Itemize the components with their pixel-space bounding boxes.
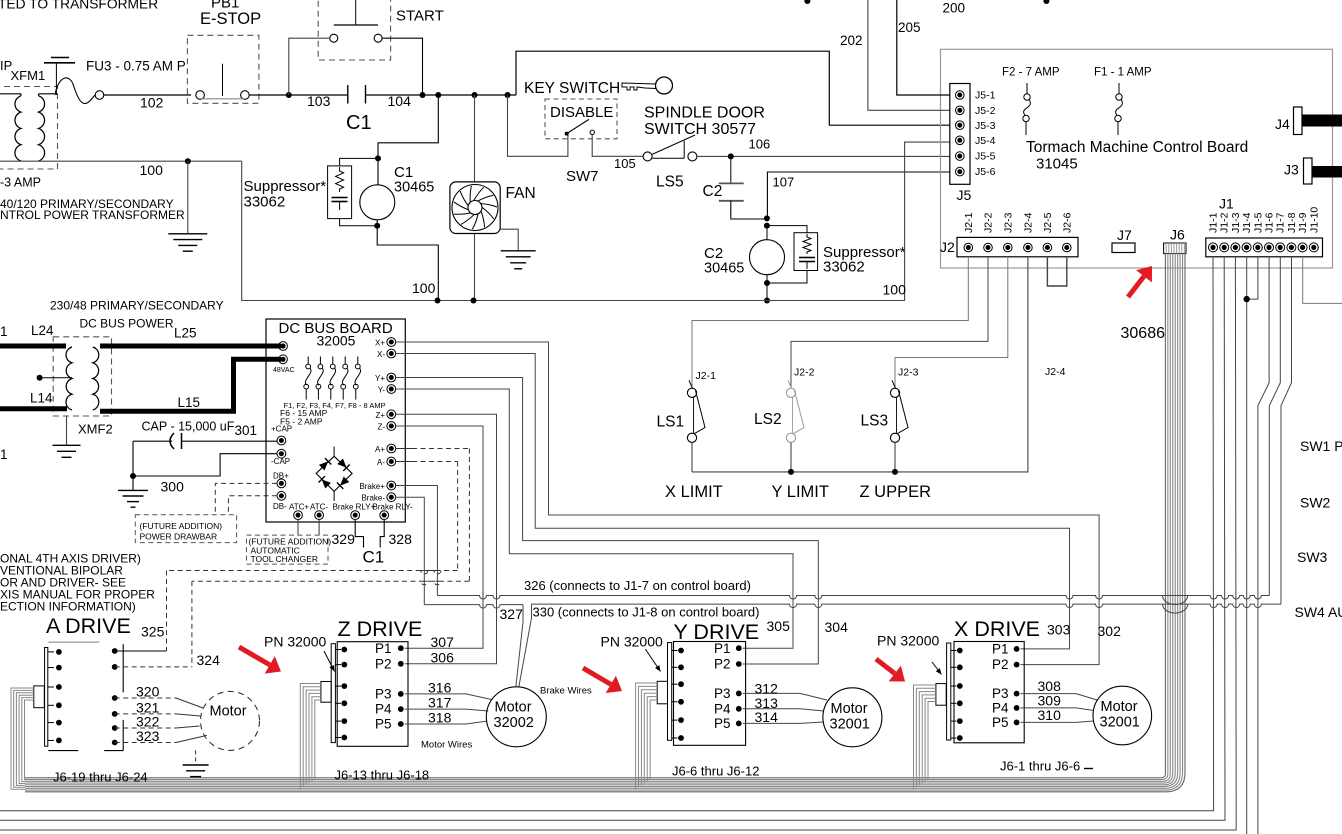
Z drive P pins	[398, 645, 404, 651]
svg-text:J6-13 thru J6-18: J6-13 thru J6-18	[335, 768, 430, 783]
capacitor ground leg	[132, 441, 134, 490]
PB2 START contacts	[330, 34, 338, 42]
suppressor bottom return (C2)	[767, 271, 807, 284]
svg-text:+CAP: +CAP	[271, 425, 292, 434]
svg-text:ECTION INFORMATION): ECTION INFORMATION)	[0, 600, 136, 614]
svg-text:P4: P4	[714, 701, 731, 716]
svg-text:320: 320	[136, 684, 160, 700]
key switch bypass wire rectangle	[516, 51, 950, 125]
wire J1-9 exits right	[1303, 257, 1342, 304]
wire 205	[897, 0, 950, 95]
line 330 branch to Z motor brake	[519, 604, 532, 687]
svg-text:330 (connects to J1-8 on contr: 330 (connects to J1-8 on control board)	[533, 605, 760, 620]
svg-text:A+: A+	[375, 445, 385, 454]
switch SW7 contacts and blade	[565, 132, 569, 136]
fan body	[450, 182, 500, 234]
svg-text:Z UPPER: Z UPPER	[860, 483, 932, 501]
svg-text:103: 103	[307, 93, 331, 109]
svg-text:LS1: LS1	[657, 414, 685, 431]
wire from START left contact to wire 103 node	[289, 38, 330, 95]
A drive motor dashed circle	[201, 691, 260, 750]
suppressor bottom wire (C1)	[340, 219, 378, 226]
wire 202	[868, 0, 950, 110]
connector J5 box	[950, 84, 970, 185]
jumper J1-5 to J1-4	[1247, 257, 1258, 299]
svg-text:J1-5: J1-5	[1252, 212, 1264, 233]
svg-text:230/48 PRIMARY/SECONDARY: 230/48 PRIMARY/SECONDARY	[50, 299, 224, 313]
suppressor wire top (C1)	[340, 158, 378, 166]
svg-text:323: 323	[136, 728, 160, 744]
connector J2 pins and labels	[964, 243, 973, 252]
wire 104	[366, 94, 517, 96]
svg-text:105: 105	[614, 156, 636, 171]
svg-text:DB+: DB+	[273, 472, 289, 481]
svg-text:Brake RLY-: Brake RLY-	[373, 503, 413, 512]
wire X- to X drive 303	[396, 354, 1070, 649]
svg-text:LS2: LS2	[754, 411, 782, 428]
svg-text:J2: J2	[940, 239, 955, 255]
svg-text:J2-6: J2-6	[1061, 212, 1073, 233]
svg-text:FAN: FAN	[506, 185, 536, 202]
svg-text:Motor Wires: Motor Wires	[421, 740, 472, 751]
svg-text:318: 318	[428, 710, 452, 726]
svg-text:DB-: DB-	[273, 502, 287, 511]
svg-text:P5: P5	[714, 716, 731, 731]
svg-text:100: 100	[412, 280, 436, 296]
wire 103	[249, 94, 348, 96]
wire 107 from J5-6	[767, 172, 949, 218]
PB2 START actuator	[334, 24, 378, 26]
terminal Z+	[387, 410, 396, 419]
limit switch LS1	[687, 388, 696, 397]
connector J6	[1164, 243, 1186, 254]
ribbon cable 30686 from J6	[25, 254, 1165, 778]
junction dots at top edge	[804, 0, 810, 4]
connector J1 box	[1206, 238, 1323, 257]
thick bus bar L25	[100, 344, 281, 349]
contactor coil C1 30465 circle	[360, 185, 395, 220]
wire Z- to Z drive 307	[396, 426, 483, 648]
wire 325 stub	[115, 650, 167, 652]
wire Z+ to Z drive 306	[396, 414, 497, 664]
Z motor circle	[486, 687, 546, 747]
A motor ground	[195, 750, 197, 765]
red arrow at Y drive	[583, 668, 611, 684]
svg-text:SW3: SW3	[1297, 549, 1328, 565]
connector J4	[1294, 107, 1303, 135]
svg-text:POWER DRAWBAR: POWER DRAWBAR	[140, 532, 218, 542]
wire J1-1 to bottom bus	[0, 257, 1214, 811]
junction dots at C2 coil top	[764, 215, 770, 221]
wire from START right contact to wire 104 node	[382, 38, 422, 95]
terminal -CAP	[277, 449, 286, 458]
bridge rectifier	[316, 456, 352, 491]
terminal Brake RLY+	[351, 511, 360, 520]
wire ATC- into box	[318, 520, 320, 535]
svg-text:307: 307	[431, 634, 455, 650]
wire J2-1 to LS1	[692, 257, 968, 388]
svg-text:328: 328	[389, 531, 413, 547]
svg-text:30686: 30686	[1121, 325, 1166, 342]
wire J1-7 with jog to line 326	[1269, 257, 1280, 596]
svg-text:L24: L24	[31, 323, 54, 338]
svg-text:X+: X+	[375, 339, 385, 348]
svg-text:J5-3: J5-3	[975, 120, 996, 132]
svg-text:316: 316	[428, 679, 452, 695]
motor wires 320-323 dashed	[115, 697, 176, 699]
LS5 blade triangle	[652, 135, 695, 158]
svg-text:XMF2: XMF2	[78, 422, 113, 437]
svg-text:J2-1: J2-1	[963, 212, 975, 233]
wire Brake RLY- to coil C1	[380, 520, 384, 548]
svg-text:33062: 33062	[244, 194, 286, 211]
key icon	[656, 77, 673, 94]
wires 308 309 310 to X motor	[1021, 693, 1076, 695]
svg-text:E-STOP: E-STOP	[200, 10, 261, 28]
X drive cable block	[936, 684, 946, 706]
svg-text:31045: 31045	[1036, 156, 1078, 173]
terminal Brake+	[387, 481, 396, 490]
svg-text:X LIMIT: X LIMIT	[665, 483, 723, 501]
wire -CAP to ground node 300	[133, 454, 277, 476]
svg-text:Tormach Machine Control Board: Tormach Machine Control Board	[1026, 139, 1248, 156]
svg-text:310: 310	[1038, 707, 1062, 723]
limit switch LS2	[786, 388, 795, 397]
connector J3	[1304, 158, 1313, 184]
svg-text:301: 301	[235, 423, 258, 438]
svg-text:SW4 AUX: SW4 AUX	[1295, 604, 1342, 620]
suppressor capacitor plates (C1)	[332, 197, 348, 199]
limit switch LS3	[890, 388, 899, 397]
svg-text:J5-1: J5-1	[975, 90, 996, 102]
svg-text:304: 304	[825, 619, 849, 635]
Y drive P pins	[736, 645, 742, 651]
Z drive cable bundle	[300, 684, 321, 790]
fuse bank F1-F8	[307, 357, 309, 365]
svg-text:J6: J6	[1170, 227, 1185, 243]
svg-text:A-: A-	[377, 458, 385, 467]
svg-text:J5-5: J5-5	[975, 151, 996, 163]
Y motor circle	[823, 688, 882, 747]
A drive connector bar	[45, 648, 48, 747]
svg-text:SWITCH 30577: SWITCH 30577	[644, 121, 756, 138]
svg-text:TED TO TRANSFORMER: TED TO TRANSFORMER	[0, 0, 158, 12]
svg-text:P5: P5	[375, 717, 392, 732]
A drive cable bundle	[11, 688, 34, 789]
Tormach machine control board outline	[941, 49, 1333, 268]
wires 312 313 314 to Y motor	[743, 692, 800, 694]
svg-text:(FUTURE ADDITION): (FUTURE ADDITION)	[140, 521, 223, 531]
svg-text:P5: P5	[992, 715, 1009, 730]
svg-text:J2-4: J2-4	[1022, 212, 1034, 233]
wire J1-2 to bottom bus	[0, 257, 1225, 820]
DISABLE dashed box	[545, 99, 617, 139]
svg-text:107: 107	[773, 175, 795, 190]
red arrow at X drive	[876, 659, 895, 674]
XMF2 primary coil	[66, 347, 72, 410]
svg-text:J1-6: J1-6	[1264, 212, 1276, 233]
svg-text:C2: C2	[703, 183, 723, 200]
svg-text:J2-3: J2-3	[898, 367, 919, 379]
A drive top grey line	[48, 641, 99, 643]
wire DB+ to drawbar box	[215, 483, 277, 514]
svg-text:312: 312	[755, 680, 779, 696]
junction dots on wire 104	[286, 92, 292, 98]
svg-text:SPINDLE DOOR: SPINDLE DOOR	[644, 105, 765, 122]
terminal ATC+	[294, 511, 303, 520]
wire from node 104 to C1 coil	[378, 95, 438, 185]
svg-text:ATC-: ATC-	[310, 503, 328, 512]
svg-text:SW1 P: SW1 P	[1300, 438, 1342, 454]
wire 102 segment with fuse FU3	[55, 78, 95, 104]
svg-text:PN 32000: PN 32000	[601, 634, 663, 650]
wire A+ dashed to A drive 324	[396, 448, 412, 450]
wire Brake+ down	[396, 486, 438, 596]
svg-text:J6-6 thru J6-12: J6-6 thru J6-12	[672, 764, 759, 779]
PN 32000 pointer Y	[645, 649, 660, 671]
red arrow at J6	[1128, 276, 1144, 297]
connector J2 box	[957, 237, 1078, 256]
Y drive left pins	[678, 648, 684, 654]
svg-text:1: 1	[0, 324, 8, 339]
svg-text:PN 32000: PN 32000	[877, 633, 939, 649]
svg-text:TOOL CHANGER: TOOL CHANGER	[251, 554, 319, 564]
transformer XFM1 secondary coil	[38, 94, 40, 96]
Y drive cable bundle	[636, 683, 658, 789]
capacitor C2 bottom lead to coil node	[731, 201, 767, 219]
C1 coil bottom wire to line 100	[377, 220, 438, 301]
connector J7	[1112, 243, 1135, 253]
svg-text:J2-4: J2-4	[1045, 366, 1066, 378]
svg-text:32005: 32005	[317, 333, 356, 349]
A drive bottom line	[48, 750, 78, 752]
wire J1-8 with jog to line 330	[1281, 257, 1292, 604]
svg-text:32001: 32001	[1100, 715, 1140, 731]
suppressor 33062 box (C1)	[328, 166, 352, 219]
svg-text:F1 - 1 AMP: F1 - 1 AMP	[1094, 67, 1152, 79]
pushbutton PB2 START dashed box	[318, 0, 390, 60]
svg-text:30465: 30465	[704, 261, 744, 277]
capacitor left lead	[133, 440, 172, 442]
terminal ATC-	[315, 511, 324, 520]
svg-text:Suppressor*: Suppressor*	[244, 178, 327, 195]
thick bus bar L15	[100, 359, 281, 411]
svg-text:J5-2: J5-2	[975, 105, 996, 117]
transformer XMF2 dashed box	[53, 337, 111, 416]
svg-text:104: 104	[388, 93, 412, 109]
svg-text:P2: P2	[714, 657, 731, 672]
wires 316 317 318 to Z motor	[405, 693, 466, 695]
svg-text:PN 32000: PN 32000	[264, 634, 326, 650]
capacitor CAP symbol	[170, 433, 174, 449]
svg-text:P3: P3	[375, 687, 392, 702]
wire J2-3 to LS3	[895, 257, 1008, 388]
svg-text:X-: X-	[377, 350, 385, 359]
svg-text:CAP - 15,000 uF: CAP - 15,000 uF	[142, 420, 235, 434]
svg-text:Y LIMIT: Y LIMIT	[772, 483, 829, 501]
svg-text:100: 100	[883, 282, 907, 298]
svg-text:J1-4: J1-4	[1241, 212, 1253, 233]
terminal DB+	[277, 479, 286, 488]
svg-text:Motor: Motor	[495, 700, 532, 716]
svg-text:J1-10: J1-10	[1308, 207, 1320, 233]
svg-text:P1: P1	[375, 641, 392, 656]
svg-text:Z DRIVE: Z DRIVE	[338, 617, 423, 641]
wire J2-2 to LS2	[791, 257, 988, 388]
wire ATC+ into box	[297, 520, 299, 535]
svg-text:P2: P2	[375, 656, 392, 671]
suppressor resistor zigzag (C1)	[336, 167, 344, 192]
svg-text:325: 325	[141, 624, 165, 640]
svg-text:P3: P3	[992, 686, 1009, 701]
svg-text:300: 300	[161, 479, 185, 495]
PB1 E-STOP contacts	[196, 91, 205, 100]
svg-text:L14: L14	[30, 391, 53, 406]
terminal X-	[387, 349, 396, 358]
terminal Brake RLY-	[380, 511, 389, 520]
svg-text:32001: 32001	[830, 717, 870, 733]
wire J1-3 to bottom bus	[0, 257, 1236, 830]
terminal Brake-	[387, 493, 396, 502]
C2 coil bottom lead	[766, 275, 768, 301]
Z drive box	[337, 642, 408, 747]
svg-text:P2: P2	[992, 657, 1009, 672]
fuse F1	[1118, 83, 1120, 94]
wire 106	[697, 155, 950, 157]
svg-text:SW7: SW7	[566, 168, 599, 185]
svg-text:102: 102	[140, 95, 164, 111]
svg-text:ATC+: ATC+	[289, 503, 309, 512]
A drive left pins	[56, 649, 62, 655]
svg-text:F2 - 7 AMP: F2 - 7 AMP	[1002, 67, 1060, 79]
svg-text:-CAP: -CAP	[271, 457, 290, 466]
svg-text:106: 106	[749, 137, 771, 152]
wire 100 long run	[242, 142, 950, 300]
wire to suppressor (C2)	[767, 226, 807, 233]
terminal Y-	[387, 385, 396, 394]
future power drawbar dashed box	[135, 515, 236, 543]
48VAC terminals	[279, 342, 288, 351]
svg-text:200: 200	[943, 1, 966, 16]
Y drive cable block	[657, 681, 667, 704]
A drive right bracket	[122, 644, 124, 692]
svg-text:J2-3: J2-3	[1002, 212, 1014, 233]
svg-text:J5-6: J5-6	[975, 166, 996, 178]
pushbutton PB1 E-STOP dashed box	[187, 35, 259, 103]
svg-text:317: 317	[428, 695, 452, 711]
terminal Y+	[387, 373, 396, 382]
svg-text:L25: L25	[174, 326, 197, 341]
svg-text:LS5: LS5	[656, 174, 684, 191]
Z drive cable block	[321, 682, 331, 703]
Y drive box	[674, 642, 746, 746]
X drive box	[954, 642, 1024, 743]
wire 100 from transformer	[0, 160, 242, 162]
svg-text:J1-7: J1-7	[1275, 212, 1287, 233]
A drive cable block	[34, 686, 45, 708]
svg-text:1: 1	[0, 447, 8, 462]
svg-text:Brake RLY+: Brake RLY+	[333, 503, 376, 512]
line 327 to Z motor brake	[424, 605, 523, 609]
terminal X+	[387, 338, 396, 347]
svg-text:324: 324	[197, 652, 221, 668]
svg-text:32002: 32002	[494, 715, 534, 731]
transformer XFM1 primary coil	[0, 93, 21, 95]
terminal +CAP	[277, 436, 286, 445]
wire from node 104 down to DISABLE switch	[508, 95, 568, 156]
PB1 E-STOP actuator stem	[222, 64, 224, 96]
svg-text:J1: J1	[1219, 196, 1234, 212]
fan blades	[452, 185, 498, 231]
jumper J2-5 to J2-6	[1047, 257, 1066, 286]
ground on wire 100	[187, 161, 189, 234]
terminal A-	[387, 457, 396, 466]
ground below fan	[501, 250, 536, 252]
svg-text:J3: J3	[1284, 162, 1299, 178]
svg-text:P4: P4	[375, 702, 392, 717]
svg-text:C1: C1	[394, 164, 413, 181]
svg-text:L15: L15	[178, 395, 201, 410]
svg-text:J7: J7	[1117, 227, 1132, 243]
Y drive connector bar	[668, 643, 672, 741]
capacitor C2 lead from node 106	[730, 156, 732, 183]
wire DB- to drawbar box	[228, 496, 277, 515]
svg-text:J1-3: J1-3	[1230, 212, 1242, 233]
svg-text:FU3 - 0.75 AM P: FU3 - 0.75 AM P	[86, 59, 186, 74]
A drive right pins	[112, 648, 118, 654]
thick bus bar L24	[0, 344, 66, 349]
ground at node 300	[118, 489, 148, 491]
line 330 to J1-8	[532, 604, 1282, 608]
DC bus board box	[266, 319, 405, 522]
XMF2 center tap	[37, 375, 43, 381]
svg-text:Y-: Y-	[378, 386, 386, 395]
fuse FU3 terminal circle	[95, 91, 104, 100]
svg-text:Motor: Motor	[1101, 699, 1138, 715]
wire 102	[104, 94, 191, 96]
svg-text:DISABLE: DISABLE	[550, 104, 613, 121]
XMF2 secondary coil	[93, 347, 99, 410]
transformer XFM1 dashed box	[0, 87, 58, 170]
svg-text:329: 329	[332, 531, 356, 547]
svg-text:P1: P1	[714, 641, 731, 656]
X drive cable bundle	[914, 685, 936, 789]
svg-text:314: 314	[755, 709, 779, 725]
svg-text:C1: C1	[363, 548, 385, 567]
svg-text:J4: J4	[1275, 116, 1290, 132]
wire 324 stub dashed	[115, 666, 192, 668]
red arrow at Z drive	[239, 647, 270, 665]
svg-text:P4: P4	[992, 701, 1009, 716]
svg-text:Motor: Motor	[210, 704, 247, 720]
suppressor resistor zigzag (C2)	[803, 234, 811, 254]
terminal DB-	[277, 491, 286, 500]
X drive left pins	[957, 648, 963, 654]
svg-text:326 (connects to J1-7 on contr: 326 (connects to J1-7 on control board)	[524, 578, 751, 593]
wire X+ to X drive 302	[396, 342, 1099, 665]
contactor coil C2 30465 circle	[750, 240, 785, 275]
svg-text:306: 306	[431, 650, 455, 666]
thick bus bar lower left	[0, 406, 67, 411]
svg-text:START: START	[396, 8, 444, 25]
svg-text:P3: P3	[714, 686, 731, 701]
suppressor capacitor plates (C2)	[799, 257, 815, 259]
svg-text:J1-9: J1-9	[1297, 212, 1309, 233]
terminal A+	[387, 444, 396, 453]
suppressor 33062 box (C2)	[794, 233, 818, 271]
svg-text:SW2: SW2	[1300, 495, 1331, 511]
svg-text:Y+: Y+	[375, 374, 385, 383]
